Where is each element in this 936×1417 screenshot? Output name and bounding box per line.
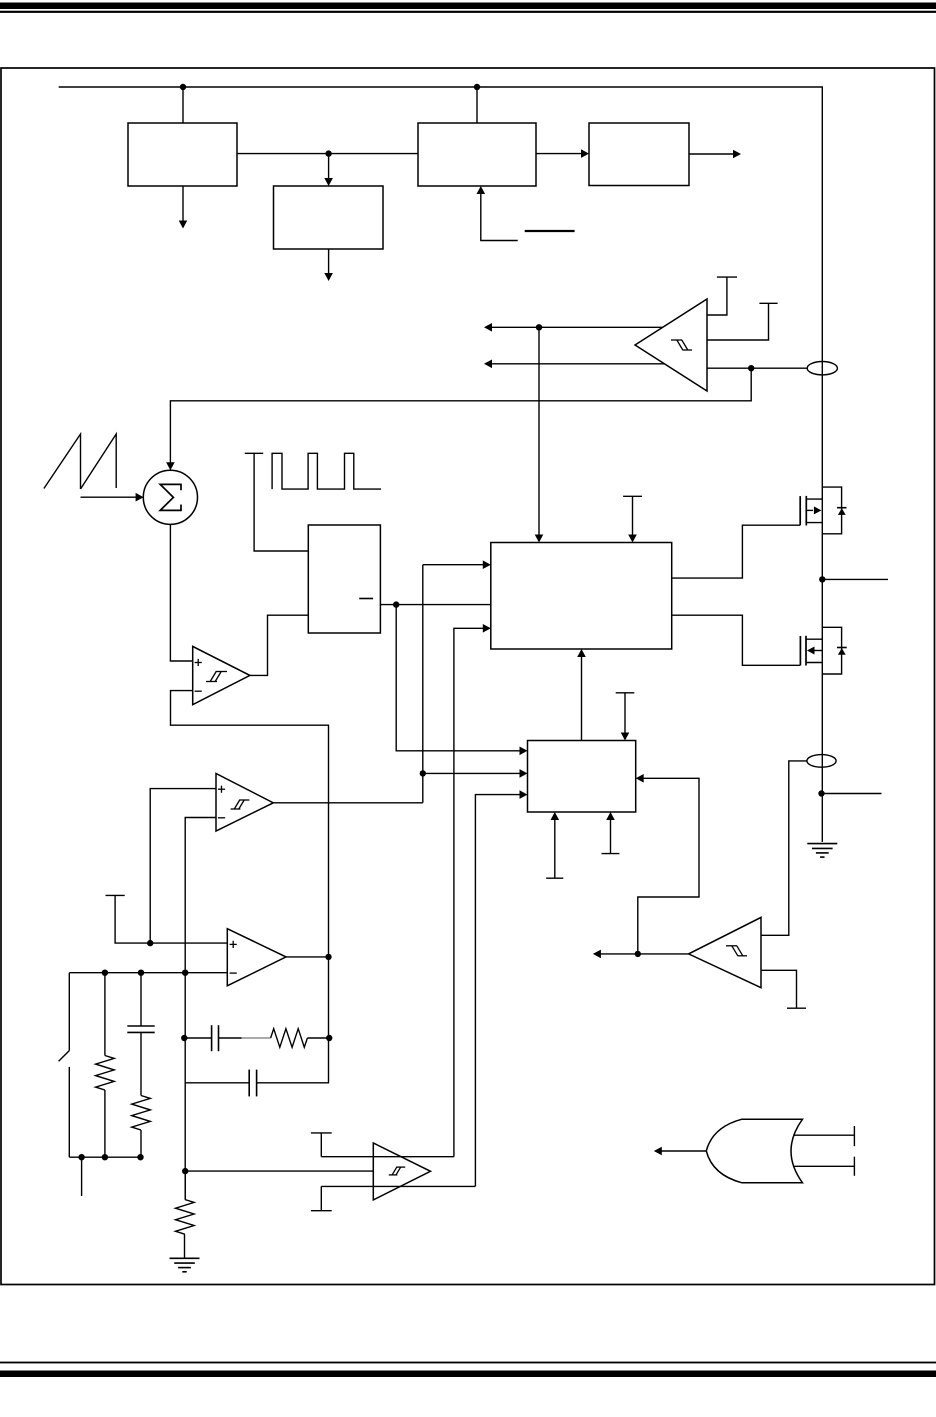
wire C3 to minus node <box>185 1082 249 1084</box>
arrow into B6 left input 3 <box>454 624 491 1157</box>
wire B6 input 1 down to U2 output <box>422 565 424 803</box>
node junction on U5 output <box>635 951 641 957</box>
node junction on OUT1 line <box>536 324 542 330</box>
wire SW output <box>822 578 888 580</box>
diode D2 arrow <box>838 648 846 655</box>
transistor Q2 drain stub <box>806 638 822 640</box>
wire switch to bottom bus <box>68 1067 70 1157</box>
minus sign U1 <box>195 690 202 692</box>
node junction below pad <box>818 790 824 796</box>
capacitor C2 lower lead <box>140 1032 142 1095</box>
comparator U2 <box>216 774 273 832</box>
wire VIN top rail and right bus <box>59 87 823 842</box>
transistor Q2 arrow stub <box>807 647 822 655</box>
block B5 oscillator latch <box>308 525 380 633</box>
wire U4 mid input <box>185 1170 373 1172</box>
arrow block B3 to block B4 <box>536 149 589 158</box>
pin inverted T below B7 input a <box>546 812 563 878</box>
pin G1 input 2 <box>794 1157 855 1176</box>
node junction on rail at block B3 <box>474 84 480 90</box>
diode D2 cathode bar <box>837 647 847 649</box>
node junction feedback right <box>326 1035 332 1041</box>
overline label mark in B5 <box>359 598 373 600</box>
arrow output below block B1 <box>179 186 188 229</box>
node junction bus at R1 <box>102 1154 108 1160</box>
node junction minus at R1 <box>102 970 108 976</box>
node junction U3 output <box>325 954 331 960</box>
resistor R2 lower lead <box>140 1130 142 1157</box>
wire rail to block B3 <box>476 87 478 123</box>
node junction minus at C2 <box>138 970 144 976</box>
wire B6 output to Q2 gate <box>672 615 801 665</box>
resistor R1 <box>96 1056 115 1091</box>
plus sign U1 <box>195 659 202 666</box>
bottom bus wire <box>69 1156 140 1158</box>
hysteresis symbol in U1 <box>206 672 227 682</box>
capacitor C4 plate left <box>211 1025 213 1051</box>
transistor Q2 source stub <box>806 662 822 664</box>
wire C4 to R4 gray part <box>242 1037 271 1039</box>
comparator U5 <box>689 917 761 987</box>
pin clock T-bar <box>245 453 308 551</box>
plus sign U2 <box>218 786 225 793</box>
wire rail to block B1 <box>182 87 184 123</box>
arrow OUT1 down into block B6 top <box>535 327 544 542</box>
capacitor C2 upper lead <box>140 973 142 1026</box>
switch SW1 blade <box>59 1051 70 1062</box>
summing node circle <box>143 470 197 524</box>
resistor R2 <box>132 1096 151 1131</box>
node junction on that wire <box>420 770 426 776</box>
wire U1 output to B5 <box>250 615 308 675</box>
wire to capacitor C4 <box>185 1037 211 1039</box>
pin pad oval P1 on bus <box>807 362 837 375</box>
resistor R1 lower lead <box>104 1090 106 1157</box>
node junction on B5 output <box>393 601 399 607</box>
transistor Q1 drain stub <box>806 498 822 500</box>
hysteresis symbol in U4 <box>389 1167 405 1175</box>
wire R4 to output node <box>307 1037 329 1039</box>
pin pad oval P2 on bus <box>807 755 836 768</box>
node junction U4 mid input <box>182 1168 188 1174</box>
pin U5 lower stub inverted T <box>761 970 806 1008</box>
block B1 <box>128 123 237 186</box>
page footer thick rule <box>0 1371 936 1378</box>
comparator U1 <box>193 646 250 704</box>
node junction minus at U2 branch <box>182 970 188 976</box>
comparator U3 <box>227 929 286 986</box>
wire U4 upper line <box>321 1156 454 1158</box>
transistor Q1 gate electrode <box>799 496 801 525</box>
arrow into B7 left input 2 <box>423 769 528 778</box>
arrow output below block B2 <box>324 249 333 281</box>
overline label mark near block B3 <box>525 230 575 232</box>
node junction above block B2 <box>325 150 331 156</box>
arrow output line OUT1 of U0 <box>484 323 663 332</box>
hysteresis symbol in U0 <box>671 340 692 350</box>
node junction on reference line <box>147 940 153 946</box>
block B6 PWM logic <box>491 543 672 650</box>
hysteresis symbol in U5 <box>726 946 747 956</box>
arrow feedback into block B3 bottom <box>477 186 518 241</box>
node junction feedback left <box>181 1035 187 1041</box>
clock pulse waveform <box>272 453 381 489</box>
resistor R3 upper lead <box>184 1171 186 1199</box>
pin G1 input 1 <box>793 1126 854 1146</box>
hysteresis symbol in U2 <box>231 800 250 809</box>
wire summing node to U1 plus input <box>170 524 192 661</box>
wire feedback to summing node <box>166 368 751 470</box>
wire junction to right <box>822 793 882 795</box>
block B3 <box>418 123 536 186</box>
wire U4 lower line <box>321 1185 475 1187</box>
wire U3 minus input line <box>69 972 227 974</box>
pin T-bar above B6 <box>623 496 642 542</box>
capacitor C2 plate bottom <box>127 1031 154 1033</box>
plus sign U3 <box>230 941 237 948</box>
wire U3 output <box>286 956 329 958</box>
capacitor C3 plate left <box>248 1070 250 1097</box>
transistor Q1 channel plate <box>805 496 807 526</box>
node junction on U0 input <box>748 365 754 371</box>
transistor Q2 gate electrode <box>799 636 801 665</box>
wire U2 plus input <box>150 789 216 944</box>
wire U0 input from bus pad <box>707 367 807 369</box>
wire U2 minus input <box>185 818 216 1200</box>
arrow output line OUT2 of U0 <box>484 360 664 369</box>
diode D1 cathode bar <box>837 507 846 509</box>
capacitor C3 plate right <box>256 1070 258 1097</box>
transistor Q1 source stub <box>806 522 822 524</box>
capacitor C4 plate right <box>218 1025 220 1051</box>
minus sign U2 <box>218 817 225 819</box>
arrow into B7 left input 3 <box>475 790 527 1186</box>
wire junction down to block B7 input 1 <box>396 605 527 756</box>
comparator U4 <box>373 1143 430 1200</box>
node junction bus at R2 <box>137 1154 143 1160</box>
arrow output of block B4 <box>689 150 741 159</box>
wire block B1 to block B3 <box>237 153 418 155</box>
stub pin below bus <box>81 1157 83 1196</box>
node junction bus at stub <box>78 1154 84 1160</box>
transistor Q1 arrow stub <box>806 506 821 514</box>
wire minus line corner down to switch <box>68 973 70 1051</box>
node junction on rail at block B1 <box>180 84 186 90</box>
pin inverted T below B7 input b <box>602 812 620 854</box>
arrow into B7 right input from U5 <box>636 774 699 954</box>
arrow from B7 up into B6 bottom <box>577 649 586 741</box>
block B4 <box>589 123 689 186</box>
resistor R3 <box>176 1200 195 1235</box>
transistor Q2 channel plate <box>805 636 807 666</box>
pin T-bar above B7 <box>616 693 635 741</box>
resistor R3 lower lead <box>184 1234 186 1258</box>
page header thin rule <box>0 11 936 13</box>
resistor R1 upper lead <box>104 973 106 1056</box>
wire U1 minus input long path <box>171 691 329 1083</box>
block B7 logic <box>528 741 636 813</box>
pin inverted T below U4 <box>311 1186 332 1210</box>
arrow U5 output <box>593 950 689 959</box>
pin T-bar above U4 <box>311 1133 332 1157</box>
wire B5 output to block B6 <box>380 604 490 606</box>
diode D2 body loop <box>822 627 841 674</box>
wire U2 output <box>273 802 423 804</box>
pin T2 of U0 <box>707 303 778 340</box>
pin T1 of U0 <box>707 277 737 315</box>
wire C4 to R4 black part <box>219 1037 242 1039</box>
diode D1 body loop <box>822 487 841 534</box>
wire B6 output to Q1 gate <box>672 525 801 578</box>
pin reference T-bar <box>106 895 228 943</box>
block B2 <box>274 186 384 249</box>
arrow into B6 left input 1 <box>423 560 491 569</box>
wire pad P2 to U5 upper stub <box>761 761 807 935</box>
ground symbol right <box>807 844 837 858</box>
sawtooth waveform symbol <box>44 434 116 489</box>
node junction SW <box>819 576 825 582</box>
comparator U0 <box>635 299 707 391</box>
arrow sawtooth into summing node <box>81 493 144 502</box>
resistor R4 <box>271 1029 308 1048</box>
arrow G1 output <box>654 1147 707 1156</box>
arrow into block B2 top <box>324 154 333 186</box>
sigma symbol <box>160 484 181 510</box>
page footer thin rule <box>0 1362 936 1364</box>
capacitor C2 plate top <box>127 1025 154 1027</box>
minus sign U3 <box>230 972 237 974</box>
ground symbol left <box>170 1258 200 1272</box>
page header thick rule <box>0 3 936 10</box>
diode D1 arrow <box>838 508 846 515</box>
or-gate G1 <box>706 1119 802 1183</box>
